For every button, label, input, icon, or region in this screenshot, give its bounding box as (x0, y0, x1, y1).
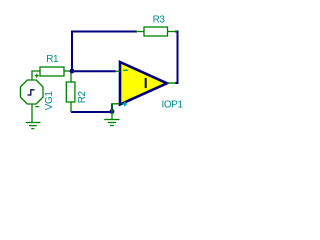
svg-text:IOP1: IOP1 (162, 100, 184, 111)
wire top feedback from node A up and right to R3 (72, 32, 137, 72)
op-amp output lead (167, 82, 176, 84)
ground below VG1 (26, 123, 41, 129)
resistor R3 (136, 27, 177, 36)
ground below node B (104, 112, 119, 126)
op-amp inverting input lead (115, 70, 120, 72)
wire node B up to op-amp non-inverting input (111, 104, 113, 113)
svg-text:VG1: VG1 (44, 91, 55, 111)
op-amp non-inverting input lead (112, 103, 120, 105)
node B junction dot (110, 109, 115, 114)
wire node A to op-amp inverting input (72, 70, 116, 72)
op-amp IOP1 (120, 62, 167, 105)
op-amp non-inverting input lead to node B vertical green (111, 104, 113, 112)
svg-text:R3: R3 (153, 14, 166, 25)
op-amp plus sign (122, 102, 127, 107)
resistor R2 (66, 72, 75, 112)
wire R2 bottom to node B (71, 111, 112, 113)
node A junction dot (70, 69, 75, 74)
svg-text:R2: R2 (77, 90, 88, 103)
VG1 plus sign (35, 74, 39, 78)
op-amp ideal symbol I (145, 78, 147, 88)
VG1 minus sign (35, 106, 39, 108)
wire R3 right corner down to op-amp output (175, 32, 178, 84)
VG1 step waveform symbol (28, 90, 35, 95)
voltage generator VG1 (20, 80, 43, 123)
resistor R1 (32, 67, 72, 80)
svg-text:R1: R1 (46, 54, 59, 65)
op-amp minus sign (123, 69, 128, 71)
